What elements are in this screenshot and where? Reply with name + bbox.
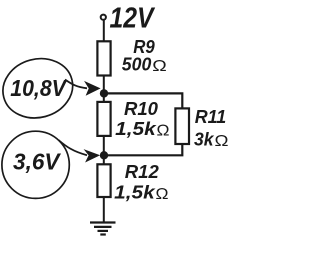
wire R10 to node B — [103, 136, 105, 165]
resistor R9 — [97, 41, 110, 75]
svg-text:1,5k: 1,5k — [115, 119, 157, 139]
resistor R11 — [175, 108, 189, 144]
svg-text:10,8V: 10,8V — [10, 75, 68, 101]
resistor R12 — [97, 164, 110, 197]
node A (junction dot) — [100, 89, 108, 97]
supply terminal (open circle) — [101, 15, 106, 20]
svg-text:Ω: Ω — [215, 133, 229, 150]
wire node B to R11 bottom — [104, 143, 182, 155]
svg-text:Ω: Ω — [157, 122, 170, 139]
leader arrow to node B — [59, 140, 99, 161]
svg-text:R12: R12 — [125, 162, 159, 182]
value 1,5kΩ (R10) — [115, 119, 169, 139]
svg-text:R11: R11 — [195, 107, 227, 127]
wire terminal to R9 — [103, 20, 105, 42]
wire node A to R11 top — [104, 93, 182, 108]
value 1,5kΩ (R12) — [114, 183, 168, 203]
value 3kΩ — [194, 129, 229, 149]
value 500Ω — [122, 55, 167, 75]
wire R9 to node A — [103, 76, 105, 103]
svg-text:R10: R10 — [124, 99, 158, 119]
annotation balloon 10,8V — [0, 51, 79, 126]
svg-text:1,5k: 1,5k — [114, 183, 156, 203]
leader arrow to node A — [65, 80, 99, 95]
svg-text:500: 500 — [122, 55, 152, 75]
svg-text:3,6V: 3,6V — [13, 148, 62, 174]
annotation balloon 3,6V — [2, 131, 69, 198]
svg-text:Ω: Ω — [156, 186, 169, 203]
node B (junction dot) — [100, 151, 108, 159]
svg-text:Ω: Ω — [152, 58, 167, 75]
ground — [90, 223, 116, 235]
svg-text:12V: 12V — [110, 3, 156, 35]
resistor R10 — [97, 102, 110, 136]
wire R12 to ground — [103, 197, 105, 222]
svg-text:3k: 3k — [194, 129, 214, 149]
